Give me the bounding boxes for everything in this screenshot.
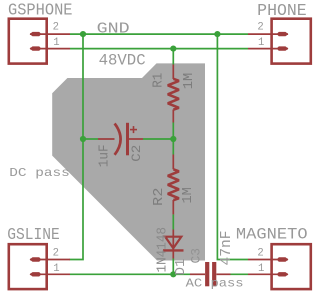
svg-text:PHONE: PHONE	[257, 2, 307, 20]
svg-text:2: 2	[53, 247, 59, 259]
svg-text:MAGNETO: MAGNETO	[236, 226, 308, 244]
svg-text:2: 2	[53, 22, 59, 34]
svg-text:48VDC: 48VDC	[99, 52, 146, 70]
svg-text:2: 2	[257, 22, 263, 34]
svg-text:C2: C2	[129, 145, 144, 162]
svg-text:1: 1	[53, 37, 59, 49]
svg-text:2: 2	[257, 247, 263, 259]
svg-text:R1: R1	[151, 73, 167, 88]
svg-text:1M: 1M	[180, 187, 196, 203]
svg-text:GND: GND	[97, 22, 130, 38]
svg-text:47nF: 47nF	[219, 231, 235, 266]
svg-text:1N4148: 1N4148	[155, 227, 170, 273]
svg-text:C3: C3	[188, 248, 203, 264]
svg-text:1: 1	[53, 263, 59, 275]
svg-text:DC pass: DC pass	[9, 166, 70, 180]
svg-text:1: 1	[258, 263, 264, 275]
svg-text:D1: D1	[173, 259, 189, 276]
svg-text:1M: 1M	[181, 73, 197, 90]
svg-text:1: 1	[258, 37, 264, 49]
svg-text:GSLINE: GSLINE	[7, 226, 60, 244]
svg-text:R2: R2	[151, 188, 167, 206]
svg-text:1uF: 1uF	[97, 144, 113, 167]
svg-text:GSPHONE: GSPHONE	[8, 1, 73, 19]
svg-text:AC pass: AC pass	[186, 277, 244, 291]
